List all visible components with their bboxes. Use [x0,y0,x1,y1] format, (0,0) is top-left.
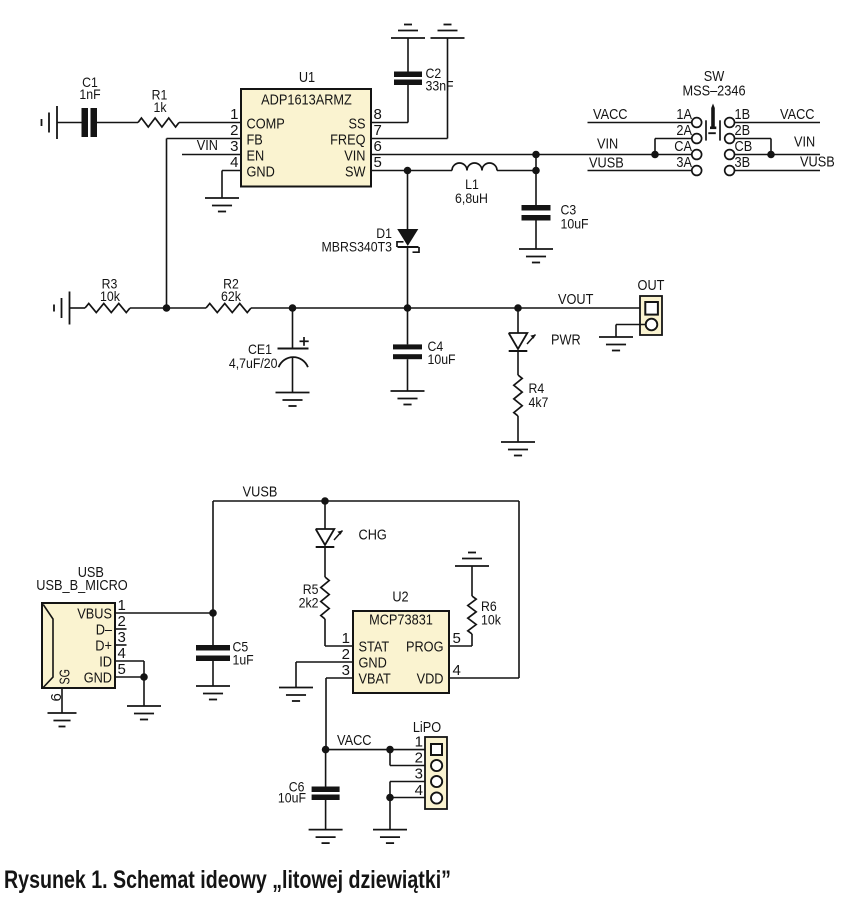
svg-text:62k: 62k [221,288,242,304]
svg-text:D+: D+ [95,638,112,655]
svg-text:8: 8 [374,106,382,123]
svg-text:ADP1613ARMZ: ADP1613ARMZ [261,92,352,109]
svg-text:1: 1 [230,106,238,123]
svg-text:Rysunek 1. Schemat ideowy „lit: Rysunek 1. Schemat ideowy „litowej dziew… [4,866,451,894]
svg-text:3B: 3B [735,154,751,171]
svg-text:3: 3 [415,766,423,783]
svg-text:SW: SW [345,164,366,181]
svg-text:6,8uH: 6,8uH [455,190,488,206]
svg-text:1: 1 [415,734,423,751]
svg-text:GND: GND [84,670,112,687]
svg-text:10k: 10k [100,288,121,304]
svg-text:7: 7 [374,122,382,139]
svg-text:FREQ: FREQ [330,132,365,149]
svg-text:VACC: VACC [337,732,372,749]
svg-text:VUSB: VUSB [800,154,835,171]
svg-text:VIN: VIN [794,134,815,151]
svg-text:4: 4 [118,645,126,662]
svg-text:10k: 10k [481,612,502,628]
svg-text:1uF: 1uF [233,652,254,668]
svg-text:VDD: VDD [417,671,444,688]
svg-text:VBUS: VBUS [77,606,112,623]
svg-text:COMP: COMP [247,116,285,133]
svg-text:PROG: PROG [406,639,444,656]
svg-text:1: 1 [342,630,350,647]
svg-text:2: 2 [415,750,423,767]
svg-text:3: 3 [342,662,350,679]
svg-text:4k7: 4k7 [529,394,549,410]
svg-text:5: 5 [374,154,382,171]
svg-text:MSS–2346: MSS–2346 [682,83,745,100]
svg-text:CB: CB [735,138,753,155]
svg-text:MBRS340T3: MBRS340T3 [322,239,393,255]
svg-text:GND: GND [247,164,275,181]
svg-text:1: 1 [118,597,126,614]
svg-text:EN: EN [247,148,265,165]
svg-text:U2: U2 [392,589,408,606]
svg-text:VBAT: VBAT [359,671,391,688]
svg-text:CA: CA [674,138,692,155]
svg-text:PWR: PWR [551,332,581,349]
svg-text:1A: 1A [676,106,692,123]
svg-text:4: 4 [453,662,461,679]
svg-text:1nF: 1nF [79,86,100,102]
svg-text:2k2: 2k2 [299,595,319,611]
svg-text:ID: ID [99,654,112,671]
svg-text:VACC: VACC [780,106,815,123]
svg-text:D–: D– [96,622,113,639]
svg-text:1k: 1k [154,99,168,115]
svg-text:4,7uF/20: 4,7uF/20 [229,355,278,371]
svg-text:FB: FB [247,132,263,149]
svg-text:U1: U1 [299,69,315,86]
svg-text:33nF: 33nF [426,78,454,94]
svg-text:5: 5 [453,630,461,647]
svg-text:3A: 3A [676,154,692,171]
svg-text:VUSB: VUSB [243,484,278,501]
svg-text:5: 5 [118,661,126,678]
svg-text:1B: 1B [735,106,751,123]
svg-text:10uF: 10uF [561,216,589,232]
svg-text:10uF: 10uF [428,351,456,367]
svg-text:2: 2 [118,613,126,630]
svg-text:VIN: VIN [597,136,618,153]
svg-text:2: 2 [342,646,350,663]
svg-text:SS: SS [349,116,366,133]
svg-text:SG: SG [57,669,74,685]
svg-text:3: 3 [118,629,126,646]
svg-text:4: 4 [415,782,423,799]
svg-text:GND: GND [359,655,387,672]
svg-text:USB_B_MICRO: USB_B_MICRO [36,577,127,594]
svg-text:10uF: 10uF [278,790,306,806]
svg-text:VUSB: VUSB [589,155,624,172]
svg-text:VOUT: VOUT [558,291,593,308]
svg-text:STAT: STAT [359,639,390,656]
svg-text:2A: 2A [676,122,692,139]
svg-text:2B: 2B [735,122,751,139]
svg-text:2: 2 [230,122,238,139]
svg-text:OUT: OUT [638,277,665,294]
svg-text:CHG: CHG [359,527,387,544]
svg-text:6: 6 [374,138,382,155]
svg-text:4: 4 [230,154,238,171]
svg-text:MCP73831: MCP73831 [369,612,433,629]
svg-text:VACC: VACC [593,106,628,123]
svg-text:3: 3 [230,138,238,155]
svg-text:VIN: VIN [344,148,365,165]
svg-text:VIN: VIN [197,137,218,154]
